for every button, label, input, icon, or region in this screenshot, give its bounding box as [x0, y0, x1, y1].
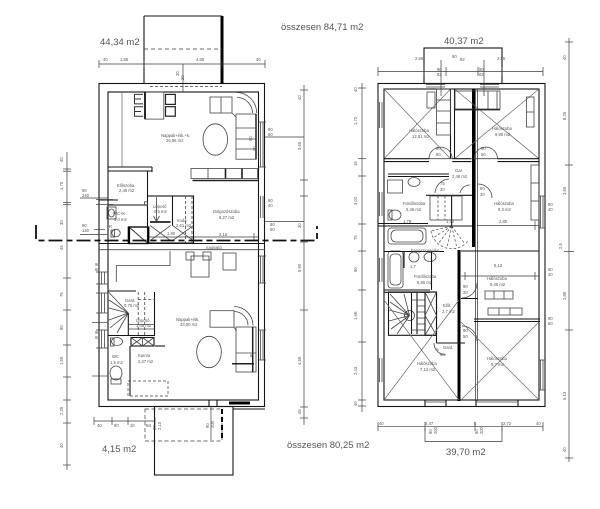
svg-text:2,85: 2,85 [499, 219, 508, 224]
svg-text:Hálószoba: Hálószoba [494, 201, 514, 206]
svg-text:20: 20 [463, 290, 468, 295]
svg-text:9,46 m2: 9,46 m2 [490, 282, 506, 287]
svg-text:240: 240 [82, 193, 90, 198]
svg-text:200: 200 [479, 426, 484, 434]
svg-text:1,5E: 1,5E [353, 311, 358, 320]
svg-text:40: 40 [548, 272, 553, 277]
svg-text:1,92: 1,92 [446, 219, 455, 224]
svg-text:50: 50 [481, 152, 486, 157]
svg-text:60: 60 [95, 267, 100, 272]
svg-text:44,34 m2: 44,34 m2 [100, 37, 140, 48]
svg-text:2,5: 2,5 [558, 243, 563, 249]
svg-text:40: 40 [97, 423, 102, 428]
svg-text:40,37 m2: 40,37 m2 [444, 36, 484, 47]
svg-text:90: 90 [480, 186, 485, 191]
svg-text:90: 90 [481, 146, 486, 151]
svg-text:2,43: 2,43 [353, 366, 358, 375]
svg-text:40: 40 [103, 57, 108, 62]
svg-text:30: 30 [297, 223, 302, 228]
svg-text:45: 45 [59, 245, 64, 250]
svg-text:82: 82 [479, 72, 484, 77]
svg-text:Hálószoba: Hálószoba [487, 276, 507, 281]
svg-text:2,85: 2,85 [562, 291, 567, 300]
svg-text:75: 75 [440, 181, 445, 186]
svg-text:Hálószoba: Hálószoba [487, 356, 507, 361]
svg-text:B4: B4 [146, 423, 152, 428]
svg-text:40: 40 [59, 157, 64, 162]
svg-text:60: 60 [548, 321, 553, 326]
svg-text:90: 90 [248, 136, 253, 141]
svg-text:9,90 m2: 9,90 m2 [495, 132, 511, 137]
svg-text:1,7: 1,7 [410, 264, 416, 269]
svg-text:90: 90 [114, 423, 119, 428]
svg-text:2,61 m2: 2,61 m2 [176, 223, 192, 228]
svg-text:82: 82 [460, 57, 465, 62]
svg-text:40: 40 [379, 421, 384, 426]
svg-text:2,16: 2,16 [219, 232, 228, 237]
svg-text:összesen 84,71 m2: összesen 84,71 m2 [281, 22, 363, 33]
svg-text:1,90: 1,90 [167, 231, 176, 236]
svg-text:5,13: 5,13 [494, 263, 503, 268]
svg-text:8,25: 8,25 [562, 111, 567, 120]
svg-text:20: 20 [480, 192, 485, 197]
svg-text:R: R [249, 354, 254, 357]
svg-text:Hálószoba: Hálószoba [492, 126, 512, 131]
svg-text:2,85: 2,85 [497, 56, 506, 61]
svg-text:WC: WC [112, 354, 119, 359]
svg-text:2,72: 2,72 [503, 421, 512, 426]
svg-text:Gard.: Gard. [443, 345, 453, 350]
svg-text:45: 45 [297, 409, 302, 414]
svg-text:40: 40 [562, 55, 567, 60]
svg-text:9,3 m2: 9,3 m2 [498, 207, 511, 212]
svg-text:1,70: 1,70 [59, 181, 64, 190]
svg-text:12,51 m2: 12,51 m2 [412, 134, 430, 139]
svg-text:50: 50 [436, 152, 441, 157]
svg-text:3,65: 3,65 [562, 186, 567, 195]
svg-text:60: 60 [252, 146, 257, 151]
svg-text:90: 90 [59, 325, 64, 330]
svg-text:40: 40 [562, 447, 567, 452]
svg-text:60: 60 [95, 335, 100, 340]
svg-text:40: 40 [353, 401, 358, 406]
svg-text:1,72: 1,72 [353, 116, 358, 125]
svg-text:200: 200 [433, 426, 438, 434]
svg-text:S: S [436, 347, 439, 352]
svg-text:82: 82 [437, 72, 442, 77]
svg-text:1,55: 1,55 [59, 356, 64, 365]
svg-text:30: 30 [59, 220, 64, 225]
svg-text:3,02: 3,02 [353, 196, 358, 205]
svg-text:4,15 m2: 4,15 m2 [102, 444, 136, 455]
svg-text:0,5 m2: 0,5 m2 [154, 209, 167, 214]
svg-text:1,05 m2: 1,05 m2 [136, 323, 152, 328]
svg-text:40: 40 [268, 203, 273, 208]
svg-text:120: 120 [82, 228, 90, 233]
svg-text:4,55: 4,55 [297, 356, 302, 365]
svg-text:5,13: 5,13 [562, 391, 567, 400]
svg-text:5,46 m2: 5,46 m2 [406, 207, 422, 212]
svg-text:10: 10 [130, 423, 135, 428]
svg-text:20: 20 [180, 75, 185, 80]
svg-text:2,27 m2: 2,27 m2 [138, 359, 154, 364]
svg-text:75: 75 [59, 292, 64, 297]
svg-text:40: 40 [59, 443, 64, 448]
svg-text:hangszigetelés: hangszigetelés [411, 248, 439, 253]
svg-text:39,70 m2: 39,70 m2 [446, 447, 486, 458]
svg-text:20: 20 [440, 187, 445, 192]
svg-text:90: 90 [463, 284, 468, 289]
svg-text:15: 15 [353, 161, 358, 166]
svg-text:1,5 m2: 1,5 m2 [110, 360, 123, 365]
svg-text:90: 90 [436, 146, 441, 151]
svg-text:90: 90 [440, 352, 445, 357]
svg-text:75: 75 [353, 235, 358, 240]
svg-text:40: 40 [297, 95, 302, 100]
svg-text:25,86 m2: 25,86 m2 [166, 138, 184, 143]
svg-text:60: 60 [268, 132, 273, 137]
svg-text:R: R [109, 224, 112, 229]
svg-text:2,47: 2,47 [425, 421, 434, 426]
svg-text:Fürdőszoba: Fürdőszoba [403, 201, 426, 206]
svg-text:Hálószoba: Hálószoba [417, 361, 437, 366]
svg-text:Előt.: Előt. [443, 303, 451, 308]
svg-text:33,00 m2: 33,00 m2 [180, 322, 198, 327]
svg-text:40: 40 [256, 57, 261, 62]
svg-text:8,27 m2: 8,27 m2 [219, 215, 235, 220]
svg-text:2,45 m2: 2,45 m2 [119, 188, 135, 193]
svg-text:40: 40 [353, 87, 358, 92]
svg-text:Gar.: Gar. [455, 168, 463, 173]
svg-text:4,85: 4,85 [196, 57, 205, 62]
svg-text:50: 50 [463, 334, 468, 339]
svg-text:Fürdőszoba: Fürdőszoba [414, 274, 437, 279]
svg-text:90: 90 [452, 54, 457, 59]
svg-text:90: 90 [353, 267, 358, 272]
svg-text:40: 40 [548, 207, 553, 212]
svg-text:2,25: 2,25 [59, 406, 64, 415]
svg-text:5,7 m2: 5,7 m2 [491, 362, 504, 367]
svg-text:30: 30 [175, 71, 180, 76]
svg-text:7,12 m2: 7,12 m2 [420, 367, 436, 372]
svg-text:60: 60 [270, 227, 275, 232]
svg-text:2,10: 2,10 [157, 421, 162, 430]
svg-text:Dolgozószoba: Dolgozószoba [213, 209, 240, 214]
svg-text:2,66: 2,66 [415, 56, 424, 61]
svg-text:2,48 m2: 2,48 m2 [452, 174, 468, 179]
svg-text:1,85: 1,85 [120, 57, 129, 62]
svg-text:Kamra: Kamra [138, 353, 151, 358]
svg-text:összesen 80,25 m2: összesen 80,25 m2 [287, 440, 369, 451]
svg-text:5,90: 5,90 [297, 263, 302, 272]
svg-text:Hálószoba: Hálószoba [409, 128, 429, 133]
svg-text:5,55 m2: 5,55 m2 [417, 280, 433, 285]
svg-text:0,75 m2: 0,75 m2 [124, 303, 140, 308]
svg-text:nagyajtó: nagyajtó [206, 245, 223, 250]
svg-text:3,65: 3,65 [297, 141, 302, 150]
svg-text:40: 40 [536, 421, 541, 426]
